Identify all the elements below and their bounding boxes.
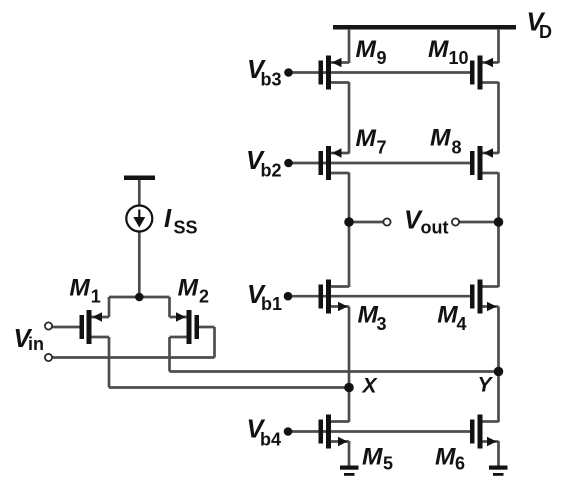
transistor M6 (NMOS) [470, 415, 499, 449]
wire Vb2 bias line [289, 162, 473, 165]
svg-text:M: M [178, 275, 199, 302]
svg-text:M: M [435, 444, 456, 471]
wire node X horizontal from M1 drain [109, 386, 349, 389]
transistor M9 (PMOS) [319, 56, 350, 90]
svg-text:in: in [28, 334, 44, 354]
wire node X down to M5 drain [348, 388, 351, 423]
wire M4 source to node Y [497, 307, 500, 372]
wire Vin- horizontal [52, 356, 215, 359]
wire M3 source to node X [348, 307, 351, 388]
wire node Y horizontal from M2 drain [170, 370, 499, 373]
wire M9 drain to M7 source [348, 82, 351, 154]
wire current source to tail junction [138, 232, 141, 299]
wire node Y down to M6 drain [497, 372, 500, 423]
wire M5 source to ground [348, 441, 351, 466]
node Vout right junction dot [494, 217, 504, 227]
wire Vout node left to open terminal [349, 221, 384, 224]
transistor M10 (PMOS) [470, 56, 499, 90]
svg-text:2: 2 [199, 287, 209, 307]
svg-text:4: 4 [457, 314, 467, 334]
wire M7 drain to Vout node [348, 173, 351, 223]
transistor M3 (NMOS) [319, 280, 350, 314]
transistor M5 (NMOS) [319, 415, 350, 449]
transistor M1 (PMOS input) [80, 310, 110, 344]
wire M10 source to VDD [497, 29, 500, 63]
transistor M8 (PMOS) [470, 146, 499, 180]
svg-text:D: D [539, 22, 552, 42]
wire M2 drain down to node Y [168, 337, 171, 372]
wire Vout left node down to M3 drain [348, 222, 351, 287]
svg-text:9: 9 [377, 48, 387, 68]
svg-text:M: M [69, 275, 90, 302]
svg-text:X: X [362, 375, 379, 398]
svg-text:7: 7 [377, 138, 387, 158]
svg-text:3: 3 [377, 314, 387, 334]
wire Vout right node down to M4 drain [497, 222, 500, 287]
wire M2 source up [168, 297, 171, 317]
node Vout left junction dot [344, 217, 354, 227]
current source ISS [124, 176, 155, 232]
svg-text:M: M [362, 444, 383, 471]
transistor M4 (NMOS) [470, 280, 499, 314]
svg-text:I: I [164, 205, 172, 233]
VDD rail [333, 25, 516, 30]
svg-text:M: M [356, 125, 377, 152]
terminal Vout left open circle [383, 218, 390, 225]
svg-text:Y: Y [478, 374, 494, 397]
svg-text:M: M [430, 125, 451, 152]
node Vb3 dot [284, 68, 293, 77]
node Vb1 dot [284, 292, 293, 301]
svg-text:b2: b2 [261, 161, 282, 181]
svg-text:M: M [428, 36, 449, 63]
wire M10 drain to M8 source [497, 82, 500, 154]
node Vb2 dot [284, 159, 293, 168]
node tail junction dot [135, 293, 144, 302]
terminal Vout right open circle [452, 218, 459, 225]
wire M1 drain down to node X [108, 337, 111, 388]
ground under M6 [489, 466, 508, 476]
svg-text:b3: b3 [261, 70, 282, 90]
wire Vout node right to open terminal [459, 221, 499, 224]
svg-text:1: 1 [91, 287, 101, 307]
svg-text:b4: b4 [260, 430, 281, 450]
wire Vb3 bias line [289, 71, 473, 74]
node X junction dot [344, 383, 354, 393]
wire M9 source to VDD [348, 29, 351, 63]
svg-text:6: 6 [455, 454, 465, 474]
wire M2 gate right [199, 326, 215, 329]
svg-text:M: M [358, 302, 379, 329]
node Y junction dot [494, 367, 504, 377]
svg-text:out: out [421, 218, 449, 238]
node Vb4 dot [284, 427, 293, 436]
wire Vb4 bias line [288, 430, 472, 433]
wire ISS bar to current source [138, 179, 141, 206]
transistor M7 (PMOS) [319, 146, 350, 180]
wire M6 source to ground [497, 441, 500, 466]
wire M1 gate to Vin+ [52, 326, 80, 329]
wire M1 source up [108, 297, 111, 317]
svg-text:M: M [437, 302, 458, 329]
svg-text:8: 8 [452, 138, 462, 158]
svg-text:5: 5 [383, 454, 393, 474]
svg-text:M: M [356, 36, 377, 63]
terminal Vin- open circle [45, 354, 52, 361]
transistor M2 (PMOS input, mirrored) [170, 310, 200, 344]
svg-text:b1: b1 [261, 294, 282, 314]
svg-text:10: 10 [449, 48, 469, 68]
wire tail junction horizontal M1-M2 sources [109, 296, 170, 299]
svg-text:SS: SS [174, 218, 198, 238]
terminal Vin+ open circle [45, 322, 52, 329]
ground under M5 [340, 466, 359, 476]
wire M2 gate down [213, 327, 216, 358]
wire M8 drain to Vout node [497, 173, 500, 223]
wire Vb1 bias line [288, 295, 472, 298]
